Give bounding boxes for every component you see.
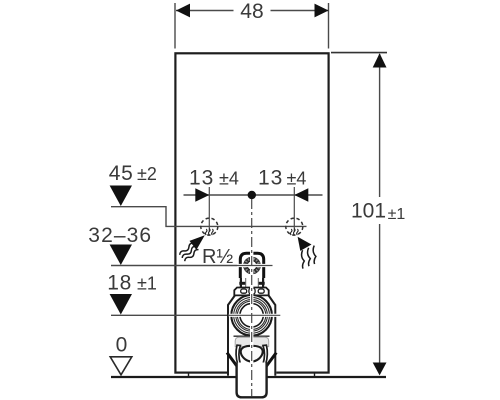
svg-text:18: 18: [107, 272, 132, 295]
svg-text:48: 48: [240, 0, 263, 23]
svg-text:13: 13: [258, 167, 283, 190]
svg-text:±4: ±4: [287, 169, 307, 189]
svg-text:±1: ±1: [388, 206, 406, 223]
svg-text:101: 101: [351, 200, 386, 223]
svg-text:13: 13: [189, 167, 214, 190]
svg-text:45: 45: [109, 162, 134, 185]
svg-text:R½: R½: [202, 246, 233, 268]
svg-text:0: 0: [116, 334, 128, 357]
svg-text:±2: ±2: [137, 164, 157, 184]
svg-text:±4: ±4: [219, 169, 239, 189]
svg-text:±1: ±1: [137, 274, 157, 294]
svg-text:32–36: 32–36: [88, 224, 152, 247]
